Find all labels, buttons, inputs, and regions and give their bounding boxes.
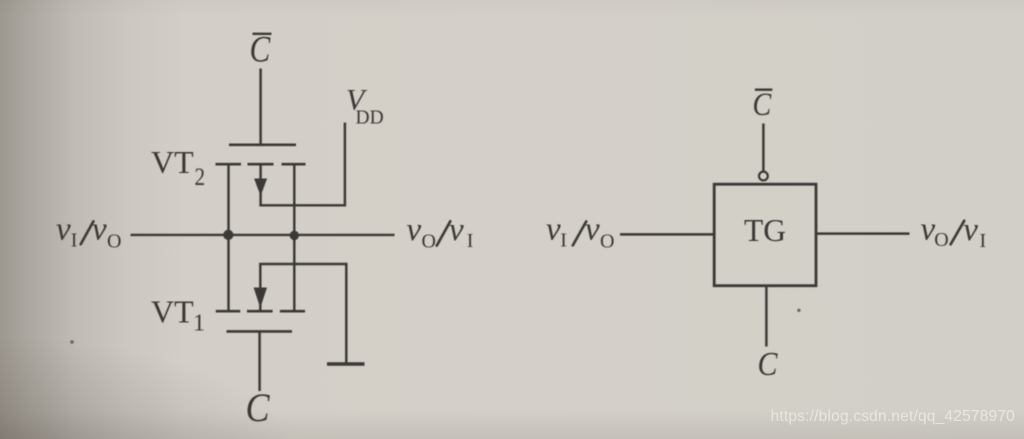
svg-text:O: O [934, 229, 948, 251]
label TG [744, 213, 786, 248]
wire: TG bottom control lead [765, 286, 767, 347]
svg-text:I: I [560, 230, 567, 252]
svg-text:C: C [246, 386, 271, 430]
svg-text:C: C [753, 86, 772, 123]
svg-text:v: v [56, 212, 71, 248]
wire: main horizontal rail vI/vO to vO/vI [131, 234, 395, 236]
wire: C-bar lead down to bubble [762, 124, 764, 172]
transistor VT1 gate bar [227, 330, 293, 333]
svg-text:v: v [963, 212, 978, 248]
label VT1 [151, 294, 205, 337]
node junction dot (right) [290, 231, 299, 240]
wire: VT2/VT1 drain vertical (right leg) [293, 164, 295, 311]
wire: TG left input [620, 233, 714, 235]
overbar of C-bar (left circuit) [253, 33, 272, 35]
svg-text:I: I [980, 230, 987, 252]
svg-text:DD: DD [356, 108, 384, 129]
TG box U1 [714, 184, 816, 286]
net C label (bottom of TG symbol) [758, 344, 779, 382]
wire: gate lead of VT2 [259, 69, 261, 145]
svg-text:v: v [921, 212, 936, 248]
net C label (bottom of left circuit) [246, 386, 271, 430]
svg-text:O: O [600, 231, 614, 253]
net C-bar label (TG symbol) [753, 86, 772, 123]
svg-text:O: O [422, 231, 436, 253]
node label vO/vI (TG symbol) [921, 212, 987, 253]
node junction dot (left) [223, 230, 233, 240]
svg-text:2: 2 [195, 164, 206, 192]
svg-text:C: C [758, 344, 779, 382]
transistor VT1 substrate arrow (NMOS, pointing down into channel) [254, 288, 267, 309]
ground bar (substrate of VT1) [327, 362, 365, 366]
svg-text:VT: VT [151, 294, 194, 330]
node label vI/vO (TG symbol) [546, 212, 614, 253]
net C-bar label (left circuit) [250, 30, 272, 70]
paper speck left of VT1 [70, 340, 74, 344]
svg-text:I: I [467, 230, 474, 252]
svg-text:v: v [92, 212, 107, 248]
svg-text:I: I [71, 230, 78, 252]
svg-text:v: v [585, 212, 600, 248]
svg-text:C: C [250, 30, 272, 70]
wire: VT2 substrate lead to VDD [261, 123, 345, 206]
wire: VT2/VT1 source vertical (left leg) [227, 164, 229, 311]
node label vO/vI (left circuit) [407, 212, 474, 253]
svg-text:1: 1 [193, 311, 205, 337]
transistor VT2 channel segments [216, 163, 306, 166]
node label vI/vO (left circuit) [56, 212, 121, 253]
svg-text:v: v [546, 212, 561, 248]
svg-text:TG: TG [744, 213, 786, 248]
transistor VT1 channel segments [216, 310, 305, 313]
transistor VT2 gate bar [229, 144, 296, 147]
svg-text:v: v [407, 212, 422, 248]
svg-text:O: O [107, 231, 121, 253]
watermark text [771, 408, 1015, 426]
paper speck near TG box [797, 309, 800, 312]
power VDD label [346, 84, 384, 129]
inverting bubble on TG control input [759, 172, 768, 181]
transistor VT2 substrate arrow (PMOS, pointing down) [254, 179, 267, 197]
wire: TG right output [816, 232, 910, 234]
svg-text:v: v [449, 212, 464, 248]
label VT2 [151, 144, 205, 192]
svg-text:VT: VT [151, 144, 194, 180]
wire: VT1 substrate lead to ground [260, 264, 346, 363]
overbar of C-bar (TG symbol) [755, 88, 773, 90]
wire: gate lead of VT1 [258, 331, 260, 391]
